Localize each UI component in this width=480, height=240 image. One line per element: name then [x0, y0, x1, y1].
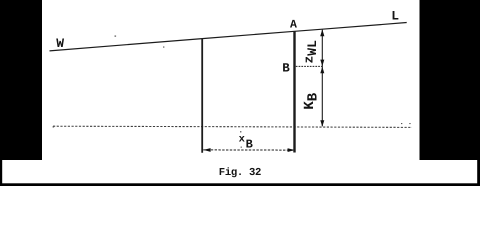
- svg-text:B: B: [282, 62, 290, 76]
- svg-text:zWL: zWL: [302, 40, 320, 64]
- svg-text:B: B: [246, 137, 253, 151]
- svg-text:x: x: [239, 133, 246, 145]
- wire: dimension line vertical z_WL / K_B: [321, 30, 323, 127]
- wire: x_B dimension line: [203, 149, 295, 151]
- left scan margin bar: [0, 0, 42, 160]
- arrowhead top of z_WL pointing up: [320, 29, 324, 36]
- textbox border right: [477, 158, 480, 186]
- wire: tick at B: [296, 65, 323, 67]
- wire: left vertical at x_B origin: [201, 39, 203, 153]
- arrowhead right end of x_B pointing right: [288, 148, 295, 152]
- wire: slanted waterline W-L: [50, 23, 407, 51]
- textbox border bottom: [0, 183, 480, 186]
- svg-text:L: L: [391, 9, 399, 24]
- arrowhead left end of x_B pointing left: [203, 148, 210, 152]
- svg-text:A: A: [290, 18, 297, 31]
- arrowhead above B tick pointing down: [320, 60, 324, 67]
- textbox border left: [0, 158, 2, 186]
- right scan margin bar: [420, 0, 480, 160]
- arrowhead below B tick pointing up: [320, 67, 324, 74]
- arrowhead bottom of K_B pointing down: [320, 120, 324, 126]
- svg-text:Fig. 32: Fig. 32: [219, 167, 262, 179]
- svg-text:KB: KB: [302, 92, 321, 109]
- wire: dashed ground line: [53, 126, 412, 127]
- svg-text:W: W: [56, 36, 64, 51]
- scan speckles: [53, 36, 411, 148]
- wire: thick vertical through A and B: [293, 31, 295, 152]
